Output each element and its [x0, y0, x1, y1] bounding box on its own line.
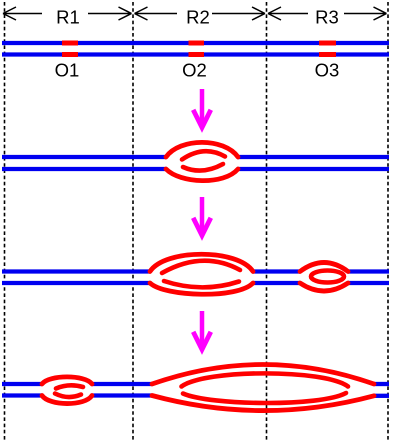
magenta arrow 3	[193, 311, 211, 350]
stage1 DNA bottom strand	[2, 52, 389, 56]
svg-text:O2: O2	[182, 60, 207, 81]
stage4 DNA strands between bubbles	[92, 382, 152, 386]
stage3 DNA strands between bubbles	[253, 269, 300, 273]
dimension arrow R3 left segment	[268, 7, 308, 20]
stage2 DNA top strand left	[2, 155, 166, 159]
dimension arrow R3 right segment	[344, 7, 387, 20]
svg-text:R3: R3	[315, 7, 339, 28]
stage3 small bubble outer at O3	[300, 263, 348, 292]
magenta arrow 1	[193, 89, 211, 128]
dashed boundary line R1/R2	[132, 2, 134, 441]
stage2 DNA bottom strand right	[237, 167, 389, 171]
svg-text:O1: O1	[55, 60, 80, 81]
magenta arrow 2	[193, 197, 211, 236]
stage3 DNA top strand left	[2, 269, 150, 273]
stage2 replication bubble outer	[166, 142, 238, 180]
stage3 large bubble inner lens	[162, 261, 240, 288]
dimension arrow R2 right segment	[212, 7, 265, 20]
stage4 DNA strand right stub	[374, 382, 389, 386]
dashed boundary line right	[387, 2, 389, 441]
origin O1 mark	[62, 43, 78, 55]
stage4 small bubble inner strands	[55, 385, 83, 397]
stage4 merged bubble inner lens	[182, 373, 349, 403]
stage3 DNA bottom strand left	[2, 281, 150, 285]
stage1 DNA top strand	[2, 41, 389, 45]
stage4 merged large bubble outer	[152, 365, 374, 411]
stage2 DNA top strand right	[237, 155, 389, 159]
stage3 DNA top strand right	[348, 269, 389, 273]
stage3 DNA bottom strand right	[348, 281, 389, 285]
stage3 small bubble inner oval	[311, 271, 344, 283]
stage4 small bubble outer at O1	[42, 377, 92, 404]
dashed boundary line R2/R3	[266, 2, 268, 441]
stage3 large bubble outer at O2	[150, 254, 253, 294]
svg-text:O3: O3	[315, 60, 340, 81]
stage2 DNA bottom strand left	[2, 167, 167, 171]
origin O2 mark	[189, 43, 205, 55]
svg-text:R1: R1	[56, 7, 80, 28]
stage2 replication bubble inner strands	[182, 151, 225, 170]
svg-text:R2: R2	[186, 7, 210, 28]
dimension arrow R2 left segment	[135, 7, 178, 20]
dashed boundary line left	[4, 2, 6, 441]
dimension arrow R1 right segment	[88, 7, 132, 20]
origin O3 mark	[319, 43, 336, 55]
stage4 DNA strand left end	[2, 382, 42, 386]
dimension arrow R1 left segment	[3, 7, 42, 20]
